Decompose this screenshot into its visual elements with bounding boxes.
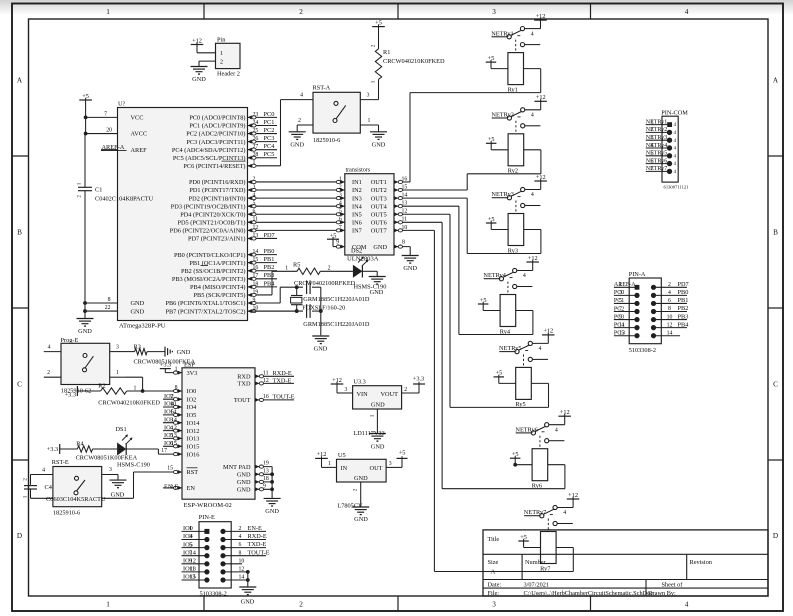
svg-text:NETRy4: NETRy4: [646, 143, 667, 149]
svg-text:7: 7: [189, 549, 192, 556]
title block: [483, 530, 768, 596]
svg-text:RXD-E: RXD-E: [248, 533, 267, 540]
svg-text:IO0: IO0: [187, 388, 197, 395]
pin 8 IO0: [178, 389, 182, 393]
svg-text:PB6 (PCINT6/XTAL1/TOSC1): PB6 (PCINT6/XTAL1/TOSC1): [165, 300, 245, 307]
svg-text:4: 4: [531, 113, 534, 119]
svg-text:PB2 (SS/OC1B/PCINT2): PB2 (SS/OC1B/PCINT2): [181, 268, 246, 275]
svg-text:8: 8: [668, 306, 671, 312]
pin 2 EN / node EN-E: [163, 487, 182, 489]
svg-text:ULN2803A: ULN2803A: [347, 256, 379, 263]
svg-text:R4: R4: [76, 440, 84, 447]
svg-text:GND: GND: [237, 487, 251, 494]
svg-text:L7805CV: L7805CV: [337, 502, 363, 509]
resistor R3: [126, 351, 135, 353]
svg-text:+5: +5: [82, 93, 89, 100]
svg-text:IO2: IO2: [187, 396, 197, 403]
svg-text:Drawn By:: Drawn By:: [648, 590, 676, 597]
pin 3: [102, 474, 118, 476]
svg-text:4: 4: [42, 468, 45, 474]
svg-text:C1: C1: [95, 186, 102, 193]
pin 4: [281, 99, 314, 101]
svg-text:8: 8: [402, 240, 405, 246]
pin 4 IO12 / node IO12: [163, 430, 182, 432]
ground GND (RST-E pin3): [117, 475, 119, 481]
wire coil to bottom: [516, 310, 533, 312]
svg-text:4: 4: [685, 601, 689, 609]
svg-text:OUT1: OUT1: [371, 179, 387, 186]
pin 5 / node NETRy5: [646, 155, 670, 157]
svg-text:13: 13: [263, 468, 269, 474]
capacitor C1: [84, 134, 86, 188]
node NETRy3: [492, 197, 508, 199]
svg-text:IN2: IN2: [352, 187, 362, 194]
svg-text:NETRy5: NETRy5: [646, 151, 667, 157]
svg-text:NETRy6: NETRy6: [515, 426, 538, 433]
grid column ticks: [203, 4, 205, 20]
pin 3 / power +5: [386, 466, 402, 468]
svg-text:+12: +12: [192, 37, 202, 44]
svg-text:3: 3: [253, 184, 256, 190]
svg-text:20: 20: [106, 128, 112, 134]
svg-text:2: 2: [77, 195, 83, 198]
svg-text:IN7: IN7: [352, 228, 362, 235]
svg-text:12: 12: [239, 567, 245, 573]
svg-text:RST-A: RST-A: [313, 84, 331, 91]
svg-text:2: 2: [47, 370, 50, 376]
svg-text:13: 13: [619, 331, 625, 337]
svg-text:TXD: TXD: [238, 381, 251, 388]
pin 19 MNT PAD: [255, 466, 272, 468]
pin 4 / node RXD-E: [220, 537, 225, 542]
svg-text:9: 9: [619, 314, 622, 320]
wire: [85, 100, 87, 134]
svg-text:TOUT-E: TOUT-E: [248, 549, 270, 556]
svg-text:3: 3: [109, 467, 112, 473]
svg-text:7: 7: [651, 166, 654, 172]
svg-text:1825910-6: 1825910-6: [313, 137, 340, 144]
pin 7 IN7: [341, 228, 345, 232]
ground GND (RST-A pin1): [378, 125, 380, 132]
pin 2: [297, 124, 313, 126]
svg-text:3V3: 3V3: [187, 370, 198, 377]
pin 2 IN2: [341, 188, 345, 192]
svg-text:3: 3: [116, 345, 119, 351]
svg-text:6: 6: [339, 217, 342, 223]
svg-text:Size: Size: [488, 559, 499, 566]
ground GND (ESP): [264, 497, 281, 499]
svg-text:27: 27: [253, 144, 259, 150]
pin 11 IO13 / node IO13: [182, 571, 207, 573]
junction: [270, 472, 274, 476]
svg-text:B: B: [17, 229, 22, 237]
relay coil Ry3: [508, 214, 524, 246]
svg-text:AREF-A: AREF-A: [102, 144, 125, 151]
pin 9 IO12 / node IO12: [182, 563, 207, 565]
svg-text:1: 1: [651, 119, 654, 125]
capacitor C3: [306, 304, 308, 318]
svg-text:1: 1: [116, 370, 119, 376]
svg-text:GND: GND: [237, 479, 251, 486]
wire: [320, 287, 322, 335]
capacitor C2: [306, 280, 308, 294]
svg-text:ESP-WROOM-02: ESP-WROOM-02: [184, 502, 232, 509]
svg-text:17: 17: [253, 273, 259, 279]
svg-text:24: 24: [253, 120, 259, 126]
pin 2: [44, 376, 61, 378]
wire: [271, 467, 273, 499]
pin 10 / node PB3: [651, 317, 656, 322]
svg-text:12: 12: [253, 225, 259, 231]
svg-text:14: 14: [253, 249, 259, 255]
resistor R5: [272, 270, 297, 272]
wire coil to bottom: [556, 547, 573, 549]
ground GND (header): [191, 66, 208, 68]
svg-text:2: 2: [339, 184, 342, 190]
svg-text:D: D: [17, 532, 22, 540]
svg-text:PC2 (ADC2/PCINT10): PC2 (ADC2/PCINT10): [186, 131, 245, 138]
pin 7 / node NETRy7: [646, 170, 670, 172]
pin 6 / node PB1: [651, 301, 656, 306]
wire XTAL2: [248, 310, 304, 312]
svg-text:2: 2: [220, 59, 223, 65]
ground GND (RST-A pin2): [296, 125, 298, 132]
wire RST-E pin1 to ESP RST: [133, 472, 135, 498]
svg-text:R5: R5: [293, 262, 300, 269]
svg-text:9: 9: [253, 297, 256, 303]
svg-text:GND: GND: [372, 141, 386, 148]
svg-text:NETRy7: NETRy7: [646, 166, 667, 172]
ground GND (ULN): [402, 255, 419, 257]
svg-text:AVCC: AVCC: [131, 131, 148, 138]
svg-text:8: 8: [239, 550, 242, 556]
svg-text:NETRy3: NETRy3: [646, 135, 667, 141]
svg-text:HSMS-C190: HSMS-C190: [354, 283, 387, 290]
pin 1 IN1: [341, 180, 345, 184]
svg-text:OUT7: OUT7: [371, 228, 387, 235]
ground GND (mcu): [77, 318, 94, 320]
svg-text:PB1: PB1: [678, 297, 689, 304]
svg-text:IN5: IN5: [352, 211, 362, 218]
svg-text:OUT4: OUT4: [371, 203, 388, 210]
svg-text:NETRy1: NETRy1: [646, 119, 667, 125]
svg-text:RXD: RXD: [237, 374, 251, 381]
svg-text:PD7 (PCINT23/AIN1): PD7 (PCINT23/AIN1): [188, 236, 246, 243]
svg-text:5103308-2: 5103308-2: [200, 591, 227, 598]
svg-text:6: 6: [253, 209, 256, 215]
svg-text:EN: EN: [187, 485, 196, 492]
svg-text:8: 8: [108, 297, 111, 303]
resistor R4: [59, 444, 61, 454]
svg-text:19: 19: [253, 289, 259, 295]
svg-text:4: 4: [339, 201, 342, 207]
svg-text:OUT: OUT: [370, 465, 383, 472]
svg-text:IN4: IN4: [352, 203, 363, 210]
svg-text:2: 2: [651, 127, 654, 133]
svg-text:4: 4: [531, 31, 534, 37]
svg-text:18: 18: [253, 281, 259, 287]
svg-text:NETRy2: NETRy2: [491, 112, 514, 119]
wire PB5 to R5: [271, 271, 273, 295]
junction: [141, 389, 145, 393]
pin 7 IO2 / node IO2: [163, 398, 182, 400]
ground GND (DS2): [369, 276, 386, 278]
ground GND (R3): [164, 347, 166, 357]
svg-text:3: 3: [389, 461, 392, 467]
pin 3 IO14 / node IO14: [163, 422, 182, 424]
pin 10: [220, 561, 225, 566]
junction: [84, 132, 88, 136]
pin 3 IN3: [341, 196, 345, 200]
svg-text:GND: GND: [111, 492, 125, 499]
grid row ticks: [12, 155, 29, 157]
svg-text:C: C: [773, 381, 778, 389]
svg-text:4: 4: [253, 193, 256, 199]
pin 2 / power +3.3: [402, 392, 419, 394]
svg-text:IN: IN: [341, 465, 348, 472]
svg-text:+3.3: +3.3: [160, 361, 171, 368]
svg-text:FOXSLF/160-20: FOXSLF/160-20: [302, 305, 345, 312]
svg-text:GND: GND: [373, 244, 387, 251]
svg-text:Number: Number: [525, 559, 547, 566]
pin 2 / node EN-E: [220, 529, 225, 534]
junction: [84, 116, 88, 120]
pin 5 / node PC1: [614, 302, 637, 304]
ground GND (crystal): [312, 335, 329, 337]
svg-text:IN3: IN3: [352, 195, 362, 202]
pin 14: [220, 577, 225, 582]
svg-text:2: 2: [328, 266, 331, 272]
svg-text:DS2: DS2: [351, 248, 362, 255]
wire Prog-E pin1 to IO0: [126, 376, 143, 378]
pin 4: [31, 474, 53, 476]
svg-text:22: 22: [105, 305, 111, 311]
svg-text:GND: GND: [371, 444, 385, 451]
svg-text:2: 2: [23, 478, 29, 481]
svg-text:CRCW040210K0FKED: CRCW040210K0FKED: [98, 400, 160, 407]
svg-text:4: 4: [523, 273, 526, 279]
pin 3: [110, 351, 126, 353]
svg-text:3: 3: [651, 135, 654, 141]
svg-text:10: 10: [170, 401, 176, 408]
svg-text:17: 17: [161, 448, 167, 454]
svg-text:+5: +5: [375, 19, 382, 26]
svg-text:3: 3: [492, 601, 496, 609]
pin 2: [31, 497, 53, 499]
pin 13 GND: [255, 473, 272, 475]
svg-text:R3: R3: [134, 343, 141, 350]
pin 11 / node PC4: [614, 327, 637, 329]
svg-text:GND: GND: [354, 516, 368, 523]
svg-text:16: 16: [253, 265, 259, 271]
wire from ULN OUT5: [403, 213, 451, 215]
svg-text:GND: GND: [403, 265, 417, 272]
svg-text:+12: +12: [317, 451, 327, 458]
svg-text:Sheet of: Sheet of: [662, 581, 684, 588]
svg-text:1: 1: [328, 461, 331, 467]
wire: [247, 572, 249, 587]
svg-text:GND: GND: [131, 308, 145, 315]
node NETRy1: [492, 36, 508, 38]
svg-text:2: 2: [299, 8, 303, 16]
svg-text:PIN-COM: PIN-COM: [661, 109, 688, 116]
svg-text:RXD-E: RXD-E: [273, 370, 292, 377]
svg-text:IO14: IO14: [187, 420, 201, 427]
svg-text:A: A: [773, 76, 779, 84]
wire from ULN OUT3: [403, 197, 468, 199]
svg-text:16: 16: [263, 394, 269, 400]
svg-text:PC1: PC1: [264, 119, 275, 126]
node NETRy7: [524, 515, 540, 517]
svg-text:transistors: transistors: [346, 167, 371, 173]
svg-text:+3.3: +3.3: [47, 446, 58, 453]
power +12 (U3.3): [331, 383, 344, 385]
svg-text:RST-E: RST-E: [52, 459, 69, 466]
svg-text:9: 9: [263, 483, 266, 489]
pin 14: [651, 333, 656, 338]
wire: [197, 52, 216, 54]
svg-text:5: 5: [189, 541, 192, 548]
wire from ULN OUT4: [403, 205, 459, 207]
svg-text:File:: File:: [488, 590, 500, 597]
relay coil Ry2: [508, 134, 524, 166]
svg-text:5103308-2: 5103308-2: [629, 347, 656, 354]
pin 12 / node PB4: [651, 325, 656, 330]
wire from ULN OUT7: [403, 229, 435, 231]
svg-text:+12: +12: [332, 377, 342, 384]
svg-text:PD1 (PCINT17/TXD): PD1 (PCINT17/TXD): [189, 187, 245, 194]
svg-text:PC5: PC5: [264, 151, 275, 158]
svg-text:PIN-A: PIN-A: [629, 271, 646, 278]
pin 17 IO16: [158, 453, 182, 455]
svg-text:IO5: IO5: [187, 412, 197, 419]
wire coil to bottom: [524, 68, 541, 70]
svg-text:11: 11: [189, 566, 195, 573]
pin 7 VCC: [86, 116, 118, 118]
svg-text:PB4: PB4: [264, 280, 276, 287]
svg-text:MNT PAD: MNT PAD: [223, 464, 251, 471]
svg-text:2: 2: [170, 483, 173, 490]
pin 8 / node PB2: [651, 309, 656, 314]
svg-text:6: 6: [651, 158, 654, 164]
pin 21 AREF / node AREF-A: [101, 149, 118, 151]
svg-text:PD5 (PCINT21/OC0B/T1): PD5 (PCINT21/OC0B/T1): [177, 220, 245, 227]
node NETRy2: [492, 117, 508, 119]
svg-text:1825910-6: 1825910-6: [53, 510, 80, 517]
svg-text:6: 6: [668, 298, 671, 304]
svg-text:1: 1: [339, 176, 342, 182]
pin 15 RST: [134, 471, 183, 473]
svg-text:PC0: PC0: [264, 111, 275, 118]
svg-text:6: 6: [170, 440, 173, 447]
svg-text:RST: RST: [187, 469, 199, 476]
svg-text:R1: R1: [383, 49, 390, 56]
svg-text:14: 14: [667, 330, 673, 336]
ground GND (U3.3): [369, 433, 386, 435]
svg-text:VOUT: VOUT: [381, 391, 399, 398]
svg-text:Pin: Pin: [217, 37, 226, 44]
svg-text:19: 19: [263, 460, 269, 466]
svg-text:PB0: PB0: [264, 248, 275, 255]
svg-text:CRCW040210K0FKED: CRCW040210K0FKED: [383, 58, 445, 65]
svg-text:3: 3: [189, 533, 192, 540]
svg-text:3: 3: [367, 93, 370, 99]
svg-text:4: 4: [563, 510, 566, 516]
svg-text:PB0 (PCINT0/CLKO/ICP1): PB0 (PCINT0/CLKO/ICP1): [174, 252, 246, 259]
overline RESET (PC6): [222, 160, 246, 162]
svg-text:PC4: PC4: [264, 143, 276, 150]
svg-text:VIN: VIN: [357, 391, 369, 398]
svg-text:PIN-E: PIN-E: [199, 514, 215, 521]
svg-text:OUT2: OUT2: [371, 187, 387, 194]
overline SS (PB2): [201, 265, 209, 267]
pin 6 IO15 / node IO15: [163, 445, 182, 447]
pin 4: [44, 351, 61, 353]
svg-text:6: 6: [239, 542, 242, 548]
ground GND (PIN-E): [239, 586, 256, 588]
pin 6 / node TXD-E: [220, 545, 225, 550]
svg-text:C0603C104K5RACTU: C0603C104K5RACTU: [46, 496, 106, 503]
svg-text:Title: Title: [488, 536, 500, 543]
svg-text:15: 15: [167, 465, 173, 471]
svg-text:NETRy4: NETRy4: [483, 272, 506, 279]
svg-text:4: 4: [48, 345, 51, 351]
svg-text:TOUT: TOUT: [234, 397, 251, 404]
svg-text:4: 4: [539, 346, 542, 352]
svg-text:IO13: IO13: [187, 436, 200, 443]
svg-text:PC6 (PCINT14/RESET): PC6 (PCINT14/RESET): [183, 163, 245, 170]
svg-text:10: 10: [667, 314, 673, 320]
crystal Y1 FOXSLF/160-20: [296, 287, 298, 295]
svg-text:PB3: PB3: [264, 272, 275, 279]
svg-text:2: 2: [253, 176, 256, 182]
pin 3 / node NETRy3: [646, 139, 670, 141]
svg-text:3/07/2021: 3/07/2021: [524, 581, 550, 588]
svg-text:VCC: VCC: [131, 115, 144, 122]
svg-text:Header 2: Header 2: [217, 70, 240, 77]
pin 12 TXD / node TXD-E: [255, 382, 294, 384]
resistor R1: [372, 26, 385, 28]
pin 22 GND: [85, 310, 118, 312]
svg-text:PC2: PC2: [264, 127, 275, 134]
wire XTAL1: [279, 287, 281, 303]
svg-text:AREF-A: AREF-A: [614, 282, 636, 288]
pin 1 / node NETRy1: [646, 124, 670, 126]
svg-text:GND: GND: [354, 475, 368, 482]
svg-text:18: 18: [263, 476, 269, 482]
pin 4 IN4: [341, 204, 345, 208]
svg-text:4: 4: [239, 534, 242, 540]
pin 8 / node TOUT-E: [220, 553, 225, 558]
svg-text:R2: R2: [98, 382, 105, 389]
svg-text:TOUT-E: TOUT-E: [273, 394, 295, 401]
power +12 (U5): [315, 457, 328, 459]
svg-text:PD4 (PCINT20/XCK/T0): PD4 (PCINT20/XCK/T0): [180, 211, 245, 218]
svg-text:TXD-E: TXD-E: [248, 541, 267, 548]
svg-text:C:\Users\..\HerbChamberCircuit: C:\Users\..\HerbChamberCircuitSchematic.…: [524, 590, 654, 597]
svg-text:12: 12: [667, 322, 673, 328]
svg-text:1: 1: [370, 80, 376, 83]
svg-text:2: 2: [239, 526, 242, 532]
svg-text:PB7 (PCINT7/XTAL2/TOSC2): PB7 (PCINT7/XTAL2/TOSC2): [165, 308, 245, 315]
svg-text:CRCW08051K00FKEA: CRCW08051K00FKEA: [76, 455, 138, 462]
pin 5 IO5 / node IO5: [182, 547, 207, 549]
svg-text:PD3 (PCINT19/OC2B/INT1): PD3 (PCINT19/OC2B/INT1): [171, 203, 246, 210]
pin 14 IO5 / node IO5: [163, 414, 182, 416]
wire from ULN OUT2: [403, 189, 468, 191]
pin 3: [360, 99, 378, 101]
svg-text:13: 13: [253, 233, 259, 239]
